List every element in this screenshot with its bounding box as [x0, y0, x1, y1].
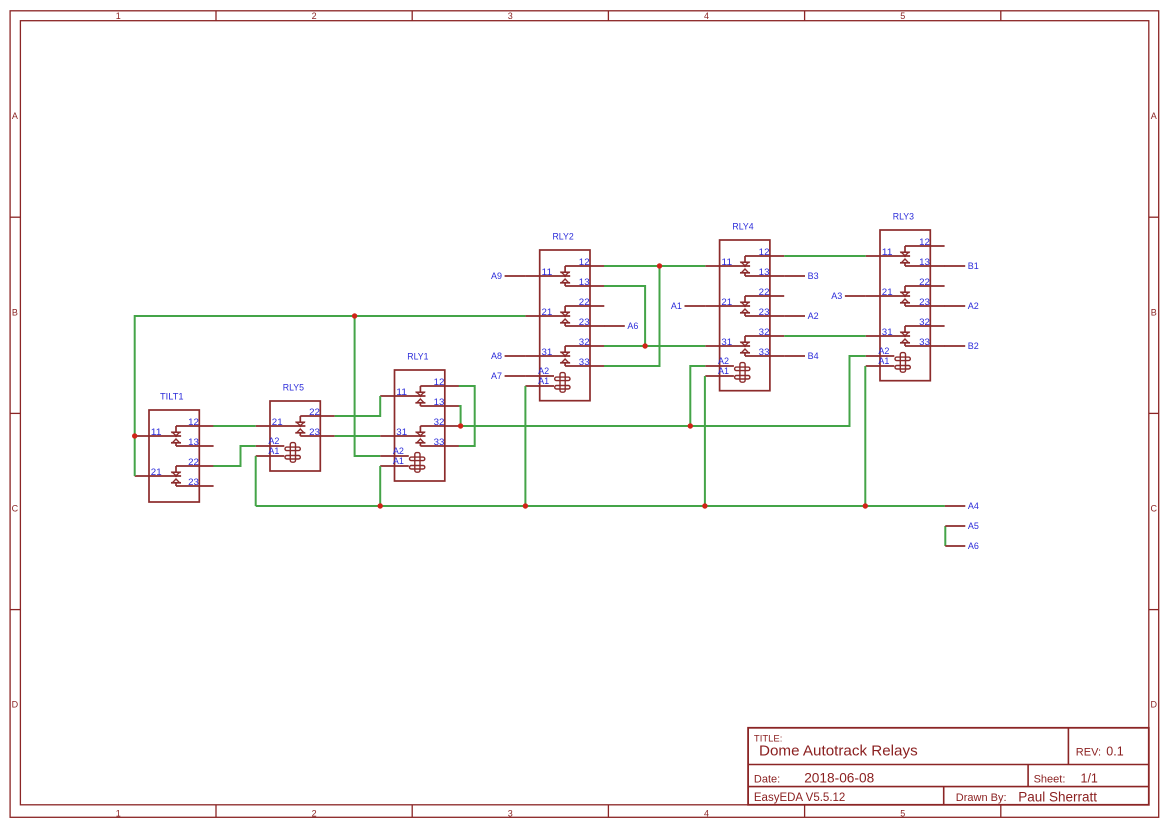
RLY3 coil pin label A2: [878, 346, 889, 356]
title block REV cell divider: [1067, 728, 1069, 765]
svg-text:12: 12: [188, 417, 199, 427]
svg-text:Date:: Date:: [754, 773, 780, 785]
title block Sheet caption: [1034, 773, 1066, 785]
RLY3 pin number 21: [882, 287, 893, 297]
junction A4 bus / RLY1.A1: [378, 503, 383, 508]
svg-text:22: 22: [188, 457, 199, 467]
svg-text:A: A: [12, 111, 18, 121]
RLY4 coil pin label A2: [718, 356, 729, 366]
RLY3 coil pin label A1: [878, 356, 889, 366]
RLY2 pin number 21: [542, 307, 553, 317]
wire RLY4.32 to RLY3.31: [784, 335, 866, 337]
wire RLY2.32 to RLY4.31: [604, 345, 705, 347]
svg-text:B: B: [12, 307, 18, 317]
RLY2 pin number 13: [579, 277, 590, 287]
junction A4 bus / RLY2.A1: [523, 503, 528, 508]
title block sheet value: [1081, 772, 1098, 786]
svg-text:A2: A2: [538, 366, 549, 376]
wire RLY3.A1 down to A4 bus: [864, 366, 866, 506]
junction top bus / RLY1.A2 branch: [352, 313, 357, 318]
net label A6 (A6 terminal): [945, 541, 979, 552]
svg-text:1: 1: [116, 808, 121, 818]
title block EasyEDA version: [754, 792, 845, 804]
svg-text:5: 5: [900, 11, 905, 21]
svg-text:23: 23: [188, 477, 199, 487]
RLY3 coil symbol: [866, 353, 911, 373]
RLY1 coil pin label A2: [393, 446, 404, 456]
wire RLY2.12 to RLY4.11: [604, 265, 705, 267]
svg-text:23: 23: [309, 427, 320, 437]
RLY4 pin number 11: [721, 257, 732, 267]
RLY1 pin number 12: [434, 377, 445, 387]
junction A4 bus / RLY4.A1: [702, 503, 707, 508]
relay RLY5 body outline: [270, 401, 320, 471]
relay RLY3 reference designator label: [893, 212, 914, 223]
net label A9 (to RLY2.11): [491, 271, 525, 282]
RLY5 coil pin label A2: [268, 436, 279, 446]
svg-text:D: D: [12, 699, 19, 709]
svg-text:31: 31: [721, 337, 732, 347]
wire A5 to A6 link: [944, 526, 946, 546]
TILT1 contact 21/22/23 switch symbol: [135, 466, 214, 486]
wire RLY2.33 up-branch to RLY2.12 net: [604, 266, 660, 366]
svg-text:A3: A3: [831, 291, 842, 302]
RLY1 pin number 11: [396, 387, 407, 397]
RLY3 pin number 33: [919, 337, 930, 347]
svg-text:11: 11: [542, 267, 553, 277]
RLY2 pin number 33: [579, 357, 590, 367]
RLY1 contact 11/12/13 switch symbol: [380, 386, 459, 406]
RLY1 pin number 32: [434, 417, 445, 427]
svg-text:31: 31: [882, 327, 893, 337]
net label A3 (to RLY3.21): [831, 291, 865, 302]
junction TILT1.11 / vertical: [132, 433, 137, 438]
RLY4 contact 21/22/23 switch symbol: [705, 296, 784, 316]
svg-text:12: 12: [919, 237, 930, 247]
svg-text:12: 12: [759, 247, 770, 257]
net label A2 (from RLY4.23): [784, 311, 818, 322]
RLY4 pin number 33: [759, 347, 770, 357]
RLY3 contact 21/22/23 switch symbol: [866, 286, 945, 306]
frame column number 4 bottom: [704, 808, 709, 818]
title block row divider 1: [748, 764, 1149, 766]
TILT1 contact 11/12/13 switch symbol: [135, 426, 214, 446]
svg-text:C: C: [12, 504, 19, 514]
wire RLY4.A1 down to A4 bus: [704, 376, 706, 506]
RLY5 pin number 21: [272, 417, 283, 427]
RLY1 pin number 33: [434, 437, 445, 447]
frame row letter D left: [12, 699, 19, 709]
svg-text:B2: B2: [968, 341, 979, 352]
RLY3 pin number 31: [882, 327, 893, 337]
svg-text:22: 22: [579, 297, 590, 307]
svg-text:A6: A6: [968, 541, 979, 552]
net label B1 (from RLY3.13): [944, 261, 979, 272]
title block date value: [804, 771, 874, 786]
title block outline: [748, 728, 1149, 805]
frame column number 1 top: [116, 11, 121, 21]
title block REV caption and value: [1076, 745, 1124, 759]
svg-text:31: 31: [542, 347, 553, 357]
RLY3 contact 11/12/13 switch symbol: [866, 246, 945, 266]
svg-text:RLY1: RLY1: [407, 352, 428, 363]
svg-text:B1: B1: [968, 261, 979, 272]
svg-text:3: 3: [508, 808, 513, 818]
svg-text:32: 32: [579, 337, 590, 347]
net label A6 (from RLY2.23): [604, 321, 638, 332]
relay RLY1 body outline: [395, 370, 445, 481]
net label B4 (from RLY4.33): [784, 351, 818, 362]
svg-text:A4: A4: [968, 501, 979, 512]
frame column tick bottom 2: [411, 805, 413, 818]
net label A4 (A4 bus terminal): [945, 501, 979, 512]
svg-text:13: 13: [188, 437, 199, 447]
wire branch up to RLY4.A2: [690, 366, 705, 426]
frame column tick top 2: [411, 11, 413, 21]
frame column tick top 1: [215, 11, 217, 21]
svg-text:33: 33: [919, 337, 930, 347]
svg-text:33: 33: [434, 437, 445, 447]
svg-text:1/1: 1/1: [1081, 772, 1098, 786]
svg-text:4: 4: [704, 808, 709, 818]
svg-text:1: 1: [116, 11, 121, 21]
net label A7 (to RLY2.A2): [491, 371, 525, 382]
RLY3 pin number 13: [919, 257, 930, 267]
RLY2 pin number 32: [579, 337, 590, 347]
RLY5 pin number 22: [309, 407, 320, 417]
junction RLY1.13/32: [458, 423, 463, 428]
RLY3 contact 31/32/33 switch symbol: [866, 326, 945, 346]
frame row tick left 3: [10, 609, 20, 611]
wire RLY4.12 to RLY3.11: [784, 255, 866, 257]
frame column number 5 bottom: [900, 808, 905, 818]
net label A1 (to RLY4.21): [671, 301, 705, 312]
relay RLY4 body outline: [720, 240, 770, 391]
svg-text:A1: A1: [671, 301, 682, 312]
frame column tick top 5: [1000, 11, 1002, 21]
svg-text:33: 33: [759, 347, 770, 357]
svg-text:33: 33: [579, 357, 590, 367]
svg-text:A5: A5: [968, 521, 979, 532]
RLY1 contact 31/32/33 switch symbol: [380, 426, 459, 446]
frame column number 5 top: [900, 11, 905, 21]
wire RLY5.22 to RLY1.11: [335, 396, 381, 416]
svg-text:2018-06-08: 2018-06-08: [804, 771, 874, 786]
frame column number 4 top: [704, 11, 709, 21]
svg-text:A: A: [1151, 111, 1157, 121]
frame row letter C right: [1150, 504, 1157, 514]
relay RLY2 reference designator label: [553, 232, 574, 243]
RLY4 pin number 22: [759, 287, 770, 297]
TILT1 pin number 22: [188, 457, 199, 467]
frame column number 2 top: [312, 11, 317, 21]
svg-text:A2: A2: [268, 436, 279, 446]
relay RLY4 reference designator label: [732, 222, 753, 233]
wire RLY2.A1 down to A4 bus: [524, 386, 526, 506]
net label B2 (from RLY3.33): [944, 341, 979, 352]
RLY4 pin number 21: [721, 297, 732, 307]
frame row tick right 2: [1149, 412, 1159, 414]
svg-text:2: 2: [312, 11, 317, 21]
wire RLY1.32 long net to RLY3.A2: [459, 356, 866, 426]
svg-text:21: 21: [542, 307, 553, 317]
svg-text:RLY3: RLY3: [893, 212, 914, 223]
RLY2 pin number 31: [542, 347, 553, 357]
net label B3 (from RLY4.13): [784, 271, 818, 282]
svg-text:A1: A1: [268, 446, 279, 456]
svg-text:B3: B3: [808, 271, 819, 282]
TILT1 pin number 13: [188, 437, 199, 447]
RLY4 coil pin label A1: [718, 366, 729, 376]
svg-text:2: 2: [312, 808, 317, 818]
svg-text:C: C: [1150, 504, 1157, 514]
RLY2 coil pin label A2: [538, 366, 549, 376]
RLY3 pin number 22: [919, 277, 930, 287]
RLY4 pin number 31: [721, 337, 732, 347]
title block row divider 2: [748, 786, 1149, 788]
RLY2 pin number 22: [579, 297, 590, 307]
TILT1 pin number 12: [188, 417, 199, 427]
RLY4 coil symbol: [705, 363, 750, 383]
RLY5 coil symbol: [256, 443, 301, 463]
title block TITLE: caption: [754, 734, 783, 745]
RLY5 contact 21/22/23 switch symbol: [256, 416, 335, 436]
relay RLY2 body outline: [540, 250, 590, 401]
svg-text:21: 21: [721, 297, 732, 307]
svg-text:RLY2: RLY2: [553, 232, 574, 243]
svg-text:13: 13: [759, 267, 770, 277]
svg-text:13: 13: [579, 277, 590, 287]
frame row letter A left: [12, 111, 18, 121]
title block Date caption: [754, 773, 780, 785]
svg-text:A2: A2: [968, 301, 979, 312]
RLY2 contact 11/12/13 switch symbol: [525, 266, 604, 286]
svg-text:4: 4: [704, 11, 709, 21]
RLY2 pin number 12: [579, 257, 590, 267]
svg-text:EasyEDA V5.5.12: EasyEDA V5.5.12: [754, 792, 845, 804]
RLY2 pin number 11: [542, 267, 553, 277]
title block schematic title text: [759, 743, 918, 760]
svg-text:A2: A2: [878, 346, 889, 356]
title block Drawn By caption: [956, 792, 1007, 804]
svg-text:13: 13: [434, 397, 445, 407]
frame column tick top 4: [804, 11, 806, 21]
frame column tick bottom 5: [1000, 805, 1002, 818]
RLY1 coil symbol: [380, 453, 425, 473]
svg-text:D: D: [1150, 699, 1157, 709]
junction long net / RLY4.A2 branch: [688, 423, 693, 428]
svg-text:Sheet:: Sheet:: [1034, 773, 1066, 785]
relay TILT1 reference designator label: [160, 392, 184, 403]
svg-text:Paul Sherratt: Paul Sherratt: [1018, 789, 1097, 804]
wire RLY5.A1 down to A4 bus: [255, 456, 257, 506]
wire A4 bus horizontal: [256, 505, 945, 507]
frame column tick bottom 1: [215, 805, 217, 818]
frame column tick bottom 3: [607, 805, 609, 818]
RLY4 pin number 13: [759, 267, 770, 277]
svg-text:RLY5: RLY5: [283, 383, 304, 394]
RLY1 pin number 13: [434, 397, 445, 407]
RLY5 coil pin label A1: [268, 446, 279, 456]
svg-text:5: 5: [900, 808, 905, 818]
junction RLY2.32 net / RLY2.13 branch: [642, 343, 647, 348]
title block author name: [1018, 789, 1097, 804]
RLY3 pin number 23: [919, 297, 930, 307]
wire RLY1.13 jog down to 32 net: [459, 406, 461, 426]
frame column tick top 3: [607, 11, 609, 21]
RLY2 coil symbol: [525, 373, 570, 393]
svg-text:11: 11: [396, 387, 407, 397]
TILT1 pin number 21: [151, 467, 162, 477]
svg-text:22: 22: [919, 277, 930, 287]
frame row letter C left: [12, 504, 19, 514]
relay RLY5 reference designator label: [283, 383, 304, 394]
wire branch top bus down to RLY1.A2: [355, 316, 381, 456]
svg-text:A7: A7: [491, 371, 502, 382]
RLY4 contact 11/12/13 switch symbol: [705, 256, 784, 276]
RLY2 contact 21/22/23 switch symbol: [525, 306, 604, 326]
wire RLY5.23 to RLY1.31: [335, 435, 381, 437]
frame column number 3 bottom: [508, 808, 513, 818]
RLY2 pin number 23: [579, 317, 590, 327]
RLY5 pin number 23: [309, 427, 320, 437]
RLY4 pin number 32: [759, 327, 770, 337]
svg-text:12: 12: [434, 377, 445, 387]
frame column number 1 bottom: [116, 808, 121, 818]
svg-text:B4: B4: [808, 351, 819, 362]
RLY4 contact 31/32/33 switch symbol: [705, 336, 784, 356]
wire net TILT1.11/21 vertical + top bus to RLY2.21: [135, 316, 526, 476]
svg-text:11: 11: [151, 427, 162, 437]
frame row letter B right: [1151, 307, 1157, 317]
svg-text:A1: A1: [878, 356, 889, 366]
frame column number 2 bottom: [312, 808, 317, 818]
wire RLY1.12 to RLY1.33 right loop: [459, 386, 475, 446]
svg-text:A1: A1: [393, 456, 404, 466]
junction A4 bus / RLY3.A1: [863, 503, 868, 508]
RLY3 pin number 32: [919, 317, 930, 327]
relay RLY1 reference designator label: [407, 352, 428, 363]
svg-text:A9: A9: [491, 271, 502, 282]
svg-text:21: 21: [272, 417, 283, 427]
svg-text:22: 22: [759, 287, 770, 297]
TILT1 pin number 11: [151, 427, 162, 437]
title block Sheet cell divider: [1027, 765, 1029, 787]
frame row letter B left: [12, 307, 18, 317]
svg-text:12: 12: [579, 257, 590, 267]
svg-text:B: B: [1151, 307, 1157, 317]
svg-text:A1: A1: [718, 366, 729, 376]
svg-text:23: 23: [919, 297, 930, 307]
TILT1 pin number 23: [188, 477, 199, 487]
frame row letter D right: [1150, 699, 1157, 709]
svg-text:TILT1: TILT1: [160, 392, 184, 403]
svg-text:Dome Autotrack Relays: Dome Autotrack Relays: [759, 743, 918, 760]
junction RLY2.12 net / RLY2.33 branch: [657, 263, 662, 268]
RLY1 pin number 31: [396, 427, 407, 437]
frame row tick left 2: [10, 412, 20, 414]
svg-text:32: 32: [759, 327, 770, 337]
svg-text:11: 11: [882, 247, 893, 257]
frame row tick right 3: [1149, 609, 1159, 611]
RLY2 coil pin label A1: [538, 376, 549, 386]
frame row letter A right: [1151, 111, 1157, 121]
RLY2 contact 31/32/33 switch symbol: [525, 346, 604, 366]
net label A5 (A5 terminal): [945, 521, 979, 532]
svg-text:3: 3: [508, 11, 513, 21]
RLY3 pin number 12: [919, 237, 930, 247]
svg-text:A6: A6: [627, 321, 638, 332]
svg-text:RLY4: RLY4: [732, 222, 753, 233]
svg-text:A2: A2: [718, 356, 729, 366]
svg-text:21: 21: [882, 287, 893, 297]
frame column tick bottom 4: [804, 805, 806, 818]
svg-text:13: 13: [919, 257, 930, 267]
wire TILT1.22 to RLY5.A2: [213, 446, 255, 466]
svg-text:32: 32: [919, 317, 930, 327]
svg-text:A2: A2: [393, 446, 404, 456]
wire TILT1.12 to RLY5.21: [213, 425, 255, 427]
relay TILT1 body outline: [149, 410, 199, 502]
wire RLY2.13 down-branch to 32 net: [604, 286, 645, 346]
svg-text:Drawn By:: Drawn By:: [956, 792, 1007, 804]
svg-text:22: 22: [309, 407, 320, 417]
svg-text:21: 21: [151, 467, 162, 477]
relay RLY3 body outline: [880, 230, 930, 381]
net label A8 (to RLY2.31): [491, 351, 525, 362]
frame row tick left 1: [10, 216, 20, 218]
frame column number 3 top: [508, 11, 513, 21]
title block Drawn-By cell divider: [943, 787, 945, 805]
svg-text:32: 32: [434, 417, 445, 427]
RLY3 pin number 11: [882, 247, 893, 257]
frame row tick right 1: [1149, 216, 1159, 218]
svg-text:A2: A2: [808, 311, 819, 322]
RLY1 coil pin label A1: [393, 456, 404, 466]
wire RLY1.A1 down to A4 bus: [379, 466, 381, 506]
RLY4 pin number 23: [759, 307, 770, 317]
svg-text:31: 31: [396, 427, 407, 437]
svg-text:23: 23: [579, 317, 590, 327]
svg-text:A1: A1: [538, 376, 549, 386]
svg-text:23: 23: [759, 307, 770, 317]
svg-text:A8: A8: [491, 351, 502, 362]
RLY4 pin number 12: [759, 247, 770, 257]
svg-text:REV:: REV:: [1076, 746, 1101, 758]
net label A2 (from RLY3.23): [944, 301, 979, 312]
svg-text:0.1: 0.1: [1106, 745, 1123, 759]
svg-text:11: 11: [721, 257, 732, 267]
